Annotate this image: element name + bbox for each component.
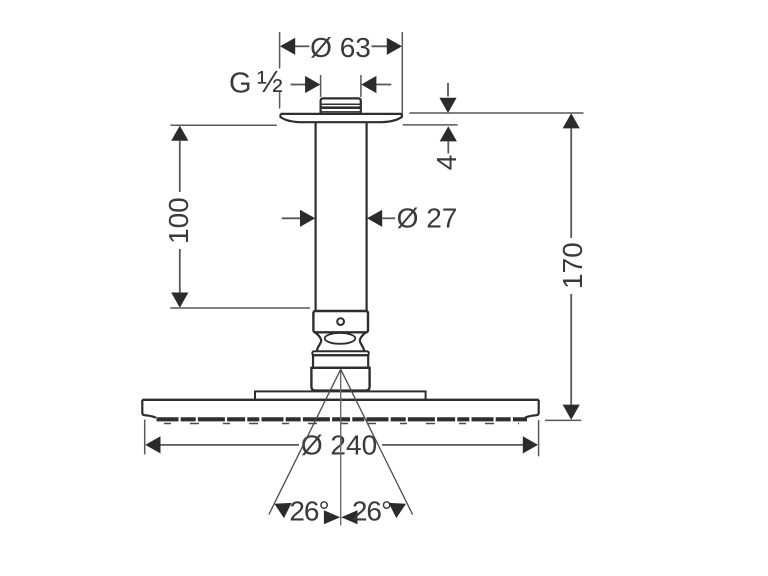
angle arrow left outer xyxy=(274,503,291,518)
spray angle centerline xyxy=(340,369,342,525)
dimension 170 reference line bottom xyxy=(545,419,581,421)
dimension 100 reference line top xyxy=(170,124,276,126)
dimension Ø63 extension line right xyxy=(401,32,403,115)
angle arrow right outer xyxy=(389,503,406,518)
dimension 4 reference line bottom xyxy=(403,124,458,126)
svg-text:Ø 240: Ø 240 xyxy=(301,430,377,461)
nut ring xyxy=(312,351,369,355)
collar block with pivot hole xyxy=(313,311,368,332)
dimension Ø240 extension line left xyxy=(144,420,146,455)
mounting plate xyxy=(255,391,426,399)
nut lower body xyxy=(311,368,369,391)
nut body xyxy=(313,355,368,368)
svg-text:Ø 63: Ø 63 xyxy=(310,32,371,63)
ceiling flange plate xyxy=(281,114,402,122)
dimension 100 line and arrows xyxy=(171,126,188,308)
spray angle right line xyxy=(341,369,413,514)
svg-text:½: ½ xyxy=(257,64,283,99)
svg-text:100: 100 xyxy=(163,197,194,244)
svg-text:G: G xyxy=(229,68,252,100)
ball joint xyxy=(315,332,366,351)
dimension 4 arrows xyxy=(439,83,457,154)
svg-text:4: 4 xyxy=(431,155,462,171)
shower head slab xyxy=(142,400,538,418)
thread stub xyxy=(321,98,361,113)
G1/2 arrows xyxy=(291,76,392,93)
svg-text:26°: 26° xyxy=(352,495,391,526)
G1/2 extension ticks xyxy=(321,75,361,97)
svg-text:170: 170 xyxy=(557,242,588,289)
dimension Ø240 line and arrows xyxy=(145,436,538,453)
dimension Ø63 extension line left xyxy=(279,32,281,109)
dimension 100 reference line bottom xyxy=(170,307,310,309)
svg-text:26°: 26° xyxy=(289,495,328,526)
nozzle band xyxy=(157,419,528,423)
dimension 170 line and arrows xyxy=(563,113,580,420)
dimension Ø63 line and arrows xyxy=(280,38,402,55)
spray angle left line xyxy=(269,369,341,514)
dimension Ø240 extension line right xyxy=(538,420,540,456)
svg-text:Ø 27: Ø 27 xyxy=(397,202,458,233)
pipe Ø27 xyxy=(316,123,367,311)
dimension 4 reference line top (ceiling plane) xyxy=(409,112,583,114)
angle bowtie arrows at centerline xyxy=(324,510,358,524)
dimension Ø27 arrows xyxy=(282,210,396,227)
